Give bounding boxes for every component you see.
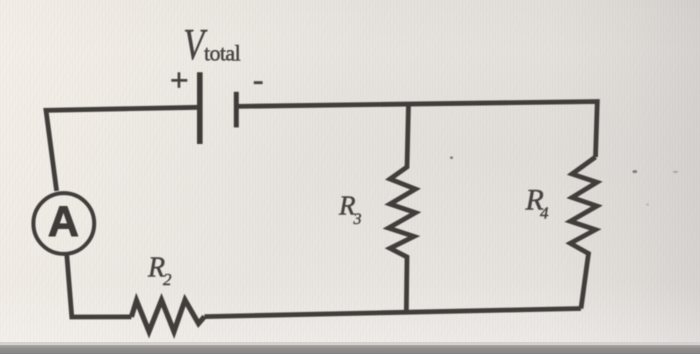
svg-text:4: 4: [540, 203, 549, 222]
svg-text:2: 2: [163, 270, 172, 289]
svg-text:3: 3: [353, 211, 362, 228]
svg-text:total: total: [204, 40, 241, 65]
svg-text:A: A: [48, 198, 79, 246]
